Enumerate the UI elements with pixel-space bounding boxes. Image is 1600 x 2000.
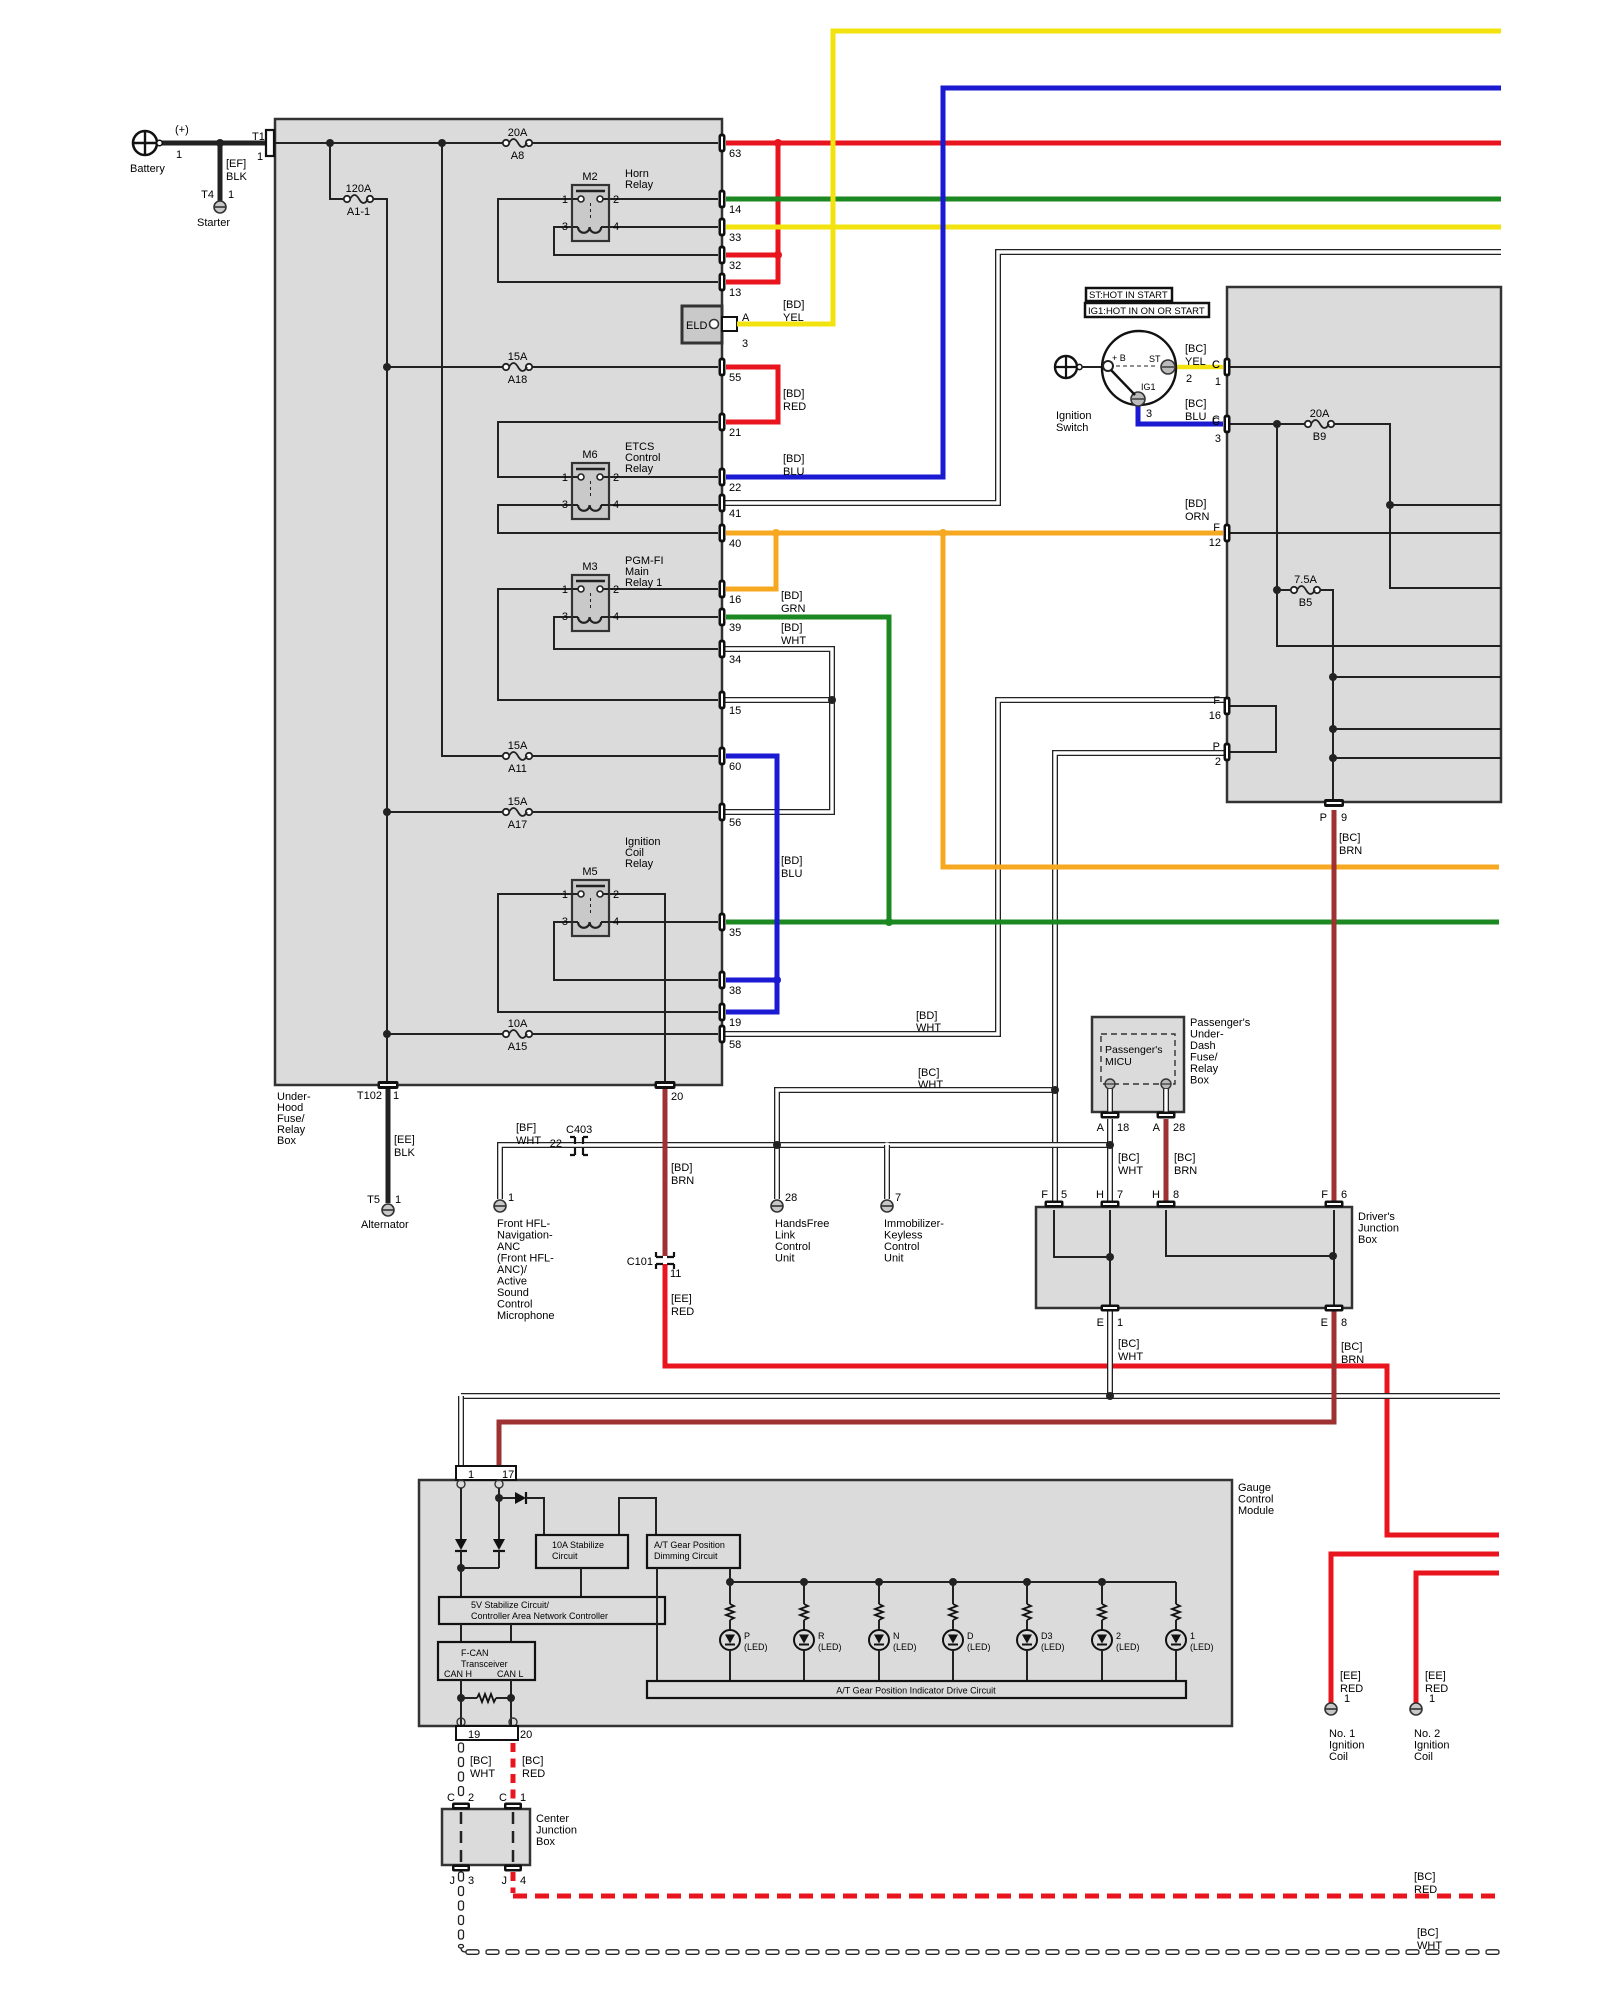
svg-text:1: 1 [393, 1090, 399, 1102]
svg-text:Driver's: Driver's [1358, 1211, 1395, 1223]
wire pin 21 to relay M6 pin1 [498, 422, 718, 477]
svg-text:16: 16 [1209, 710, 1221, 722]
svg-text:Junction: Junction [1358, 1223, 1399, 1235]
connector A18 [1097, 1112, 1130, 1135]
wire red pin 32 stub [726, 253, 780, 258]
label ignition coil relay name [625, 836, 660, 870]
wire brown A28 to H8 [1164, 1119, 1169, 1202]
svg-text:Dash: Dash [1190, 1040, 1216, 1052]
label ETCS relay name [625, 441, 660, 475]
label BC BRN at H8 [1174, 1152, 1197, 1177]
svg-text:7: 7 [895, 1192, 901, 1204]
label BD GRN [781, 590, 806, 615]
svg-text:Control: Control [1238, 1494, 1273, 1506]
junction dot pin17 [495, 1494, 503, 1502]
svg-text:Unit: Unit [884, 1253, 904, 1265]
svg-text:P: P [1213, 741, 1220, 753]
svg-text:20A: 20A [508, 127, 528, 139]
label BC RED bottom [1414, 1871, 1437, 1896]
svg-text:M6: M6 [582, 449, 597, 461]
svg-text:3: 3 [742, 338, 748, 350]
pin 33 under-hood box [719, 218, 742, 245]
wire U to dimming circuit [619, 1498, 656, 1535]
wire relay M2 pin4 to pin 33 [609, 226, 718, 228]
svg-text:ST:HOT IN START: ST:HOT IN START [1089, 290, 1168, 301]
svg-text:T5: T5 [367, 1194, 380, 1206]
label center junction box [536, 1813, 577, 1848]
svg-text:3: 3 [562, 499, 568, 511]
label gauge control module [1238, 1482, 1274, 1517]
white wire to gauge module pin 1 [458, 1396, 464, 1467]
wire blue pin 60 branch [726, 756, 777, 1012]
fuse A8 20A [503, 127, 532, 162]
svg-text:D3: D3 [1041, 1631, 1053, 1641]
svg-text:Under-: Under- [1190, 1029, 1224, 1041]
svg-text:WHT: WHT [781, 635, 806, 647]
svg-text:32: 32 [729, 260, 741, 272]
svg-text:IG1:HOT IN ON OR START: IG1:HOT IN ON OR START [1088, 306, 1205, 317]
wire fuse A1-1 output down bus [373, 199, 387, 1085]
wire fuse A17 to pin 56 [532, 811, 718, 813]
wire green pin 39 branch [726, 617, 889, 922]
wire relay M3 pin3 to pin 34 [554, 617, 718, 649]
pin F16 under-dash box [1209, 695, 1231, 722]
starter terminal [214, 201, 226, 213]
wire diodes join [460, 1551, 462, 1597]
label BC WHT bottom [1417, 1927, 1442, 1952]
svg-text:20: 20 [520, 1729, 532, 1741]
label BD WHT pin34 [781, 622, 806, 647]
center junction box [442, 1809, 530, 1865]
svg-text:120A: 120A [346, 183, 372, 195]
label BC WHT pin19 [470, 1755, 495, 1780]
svg-text:34: 34 [729, 654, 741, 666]
connector H7 [1096, 1189, 1123, 1208]
svg-text:M5: M5 [582, 866, 597, 878]
svg-text:3: 3 [562, 916, 568, 928]
svg-text:F: F [1321, 1189, 1328, 1201]
svg-text:28: 28 [1173, 1122, 1185, 1134]
wire F12 internal run [1230, 532, 1501, 534]
wire brown E8 overlay [499, 1311, 1334, 1467]
box 10A stabilize circuit [536, 1535, 628, 1568]
svg-text:Switch: Switch [1056, 422, 1088, 434]
alternator terminal [382, 1204, 394, 1216]
svg-text:15: 15 [729, 705, 741, 717]
svg-text:B9: B9 [1313, 431, 1326, 443]
svg-text:4: 4 [613, 916, 619, 928]
pin 21 under-hood box [719, 413, 742, 440]
wire 10A box to 5V box [580, 1568, 582, 1597]
svg-text:RED: RED [1425, 1683, 1448, 1695]
svg-text:2: 2 [468, 1792, 474, 1804]
svg-text:R: R [818, 1631, 825, 1641]
connector 20 box1 [655, 1081, 684, 1103]
svg-text:17: 17 [502, 1469, 514, 1481]
svg-text:YEL: YEL [783, 312, 804, 324]
label BC RED pin20 [522, 1755, 545, 1780]
label BD RED [783, 388, 806, 413]
pin P2 under-dash box [1213, 741, 1231, 768]
connector T1 [252, 130, 274, 163]
svg-text:A1-1: A1-1 [347, 206, 370, 218]
wire main bus T1 to fuse A8 [275, 142, 503, 144]
wire red to no.1 ignition coil [1331, 1554, 1499, 1703]
svg-text:[BC]: [BC] [470, 1755, 491, 1767]
svg-text:[BC]: [BC] [1341, 1341, 1362, 1353]
junction dots red [774, 139, 782, 147]
relay M3 PGM-FI main relay 1 [562, 561, 619, 631]
svg-text:BLU: BLU [783, 466, 804, 478]
svg-text:Control: Control [497, 1299, 532, 1311]
svg-text:[BD]: [BD] [916, 1010, 937, 1022]
box AT gear position dimming circuit [647, 1535, 740, 1568]
junction dot white BC [1051, 1086, 1059, 1094]
wire blue ignition switch IG1 to C3 [1138, 403, 1223, 424]
svg-text:A17: A17 [508, 819, 528, 831]
svg-text:(Front HFL-: (Front HFL- [497, 1253, 554, 1265]
svg-text:38: 38 [729, 985, 741, 997]
svg-text:F-CAN: F-CAN [461, 1648, 489, 1658]
connector C403 [550, 1124, 593, 1155]
svg-text:P: P [1320, 812, 1327, 824]
svg-text:1: 1 [520, 1792, 526, 1804]
label BC WHT at H7 [1118, 1152, 1143, 1177]
svg-text:12: 12 [1209, 537, 1221, 549]
svg-text:ANC)/: ANC)/ [497, 1264, 528, 1276]
svg-text:[BC]: [BC] [1174, 1152, 1195, 1164]
note ST hot in start [1086, 288, 1172, 301]
svg-text:Link: Link [775, 1230, 796, 1242]
svg-text:Junction: Junction [536, 1825, 577, 1837]
svg-text:Microphone: Microphone [497, 1310, 554, 1322]
svg-text:10A: 10A [508, 1018, 528, 1030]
svg-text:Navigation-: Navigation- [497, 1230, 553, 1242]
svg-text:Passenger's: Passenger's [1190, 1017, 1251, 1029]
svg-text:(LED): (LED) [893, 1642, 917, 1652]
wire orange branch to pin 16 [726, 533, 776, 589]
diode D2 down [455, 1539, 467, 1551]
svg-text:Module: Module [1238, 1505, 1274, 1517]
svg-text:Ignition: Ignition [1414, 1740, 1449, 1752]
LED column D [943, 1578, 991, 1681]
svg-text:14: 14 [729, 204, 741, 216]
MICU pin circles [1105, 1079, 1171, 1089]
svg-text:F: F [1213, 695, 1220, 707]
svg-text:WHT: WHT [916, 1022, 941, 1034]
label BD BRN at C101 [671, 1162, 694, 1187]
junction dot green [885, 918, 893, 926]
wire brown connector 20 to C101 [663, 1089, 668, 1256]
wire F6 to E8 internal [1333, 1210, 1335, 1305]
svg-text:(+): (+) [175, 124, 189, 136]
svg-text:WHT: WHT [1417, 1940, 1442, 1952]
svg-text:39: 39 [729, 622, 741, 634]
wire relay M6 pin2 to pin 22 [609, 476, 718, 478]
svg-text:8: 8 [1341, 1317, 1347, 1329]
pin 13 under-hood box [719, 273, 742, 300]
passenger MICU dashed box [1101, 1034, 1175, 1084]
box F-CAN transceiver [438, 1642, 535, 1680]
svg-text:2: 2 [1116, 1631, 1121, 1641]
label no.1 coil [1329, 1670, 1364, 1763]
handsfree terminal [771, 1200, 783, 1212]
svg-text:Control: Control [775, 1241, 810, 1253]
label BC WHT 1090 wire [918, 1067, 943, 1091]
svg-text:Dimming Circuit: Dimming Circuit [654, 1551, 718, 1561]
battery symbol [133, 131, 162, 155]
wire internal run 758 [1333, 757, 1501, 759]
wire red pin 13 stub [726, 280, 780, 285]
ignition switch [1102, 331, 1176, 406]
svg-text:Alternator: Alternator [361, 1219, 409, 1231]
wire fuse A15 row [387, 1033, 503, 1035]
svg-text:CAN L: CAN L [497, 1669, 524, 1679]
svg-text:1: 1 [395, 1194, 401, 1206]
relay M2 horn relay [562, 171, 619, 241]
wire fuse A17 row [387, 811, 503, 813]
svg-text:[BD]: [BD] [781, 855, 802, 867]
label T5 [367, 1194, 401, 1206]
svg-text:(LED): (LED) [744, 1642, 768, 1652]
wire fuse B9 output [1334, 424, 1501, 588]
svg-text:Transceiver: Transceiver [461, 1659, 508, 1669]
wire rail to last column [1175, 1582, 1177, 1604]
label drivers junction box [1358, 1211, 1399, 1246]
wire orange vertical to lower run [943, 533, 1499, 867]
svg-text:[BD]: [BD] [783, 453, 804, 465]
svg-text:5: 5 [1061, 1189, 1067, 1201]
wire branch to fuse A11 [442, 143, 503, 756]
svg-text:[BC]: [BC] [1118, 1338, 1139, 1350]
svg-text:3: 3 [1146, 408, 1152, 420]
gauge module top connector [456, 1466, 516, 1481]
note IG1 hot in on or start [1085, 303, 1209, 317]
pin 32 under-hood box [719, 246, 742, 273]
svg-text:1: 1 [468, 1469, 474, 1481]
svg-text:[EF]: [EF] [226, 158, 246, 170]
pin C3 under-dash box [1212, 415, 1230, 446]
fuse A17 15A [503, 796, 532, 831]
svg-text:ELD: ELD [686, 320, 707, 332]
svg-text:11: 11 [670, 1268, 681, 1280]
svg-text:T4: T4 [201, 189, 214, 201]
svg-text:7.5A: 7.5A [1294, 574, 1317, 586]
white wire P2 to F5 [1055, 753, 1230, 1202]
connector C101 [627, 1252, 682, 1280]
connector H8 [1152, 1189, 1179, 1208]
dashed black C2 internal [460, 1812, 463, 1862]
no.1 ignition coil terminal [1325, 1703, 1337, 1715]
svg-text:A11: A11 [508, 763, 527, 775]
wire yellow pin 33 [726, 225, 1501, 230]
fuse A1-1 120A [344, 183, 373, 218]
svg-text:1: 1 [1215, 376, 1221, 388]
fuse A11 15A [503, 740, 532, 775]
svg-text:RED: RED [1340, 1683, 1363, 1695]
gauge module pin circles top [457, 1480, 503, 1488]
wire MICU pin to A18 [1107, 1089, 1113, 1113]
svg-text:Controller Area Network Contro: Controller Area Network Controller [471, 1611, 608, 1621]
svg-text:[BD]: [BD] [781, 622, 802, 634]
svg-text:WHT: WHT [918, 1079, 943, 1091]
svg-text:1: 1 [1117, 1317, 1123, 1329]
ELD unit [682, 306, 750, 350]
svg-text:2: 2 [1186, 373, 1192, 385]
svg-text:2: 2 [613, 194, 619, 206]
white wire E1 down [1107, 1311, 1113, 1396]
svg-text:Unit: Unit [775, 1253, 795, 1265]
label immobilizer keyless control unit [884, 1218, 944, 1265]
pin 55 under-hood box [719, 358, 742, 385]
dashed black C1 internal [512, 1812, 515, 1862]
svg-text:WHT: WHT [516, 1135, 541, 1147]
svg-text:63: 63 [729, 148, 741, 160]
relay M6 ETCS control relay [562, 449, 619, 519]
wire CAN H down [460, 1680, 462, 1726]
svg-text:A: A [1097, 1122, 1105, 1134]
wire gauge pin17 internal [498, 1488, 500, 1539]
svg-text:3: 3 [1215, 433, 1221, 445]
label EE RED at C101 [671, 1293, 694, 1318]
wire blue pin 22 to top [726, 88, 1501, 477]
connector C2 CJB [447, 1792, 474, 1810]
svg-text:[BF]: [BF] [516, 1122, 536, 1134]
label handsfree link control unit [775, 1218, 829, 1265]
svg-text:[EE]: [EE] [394, 1134, 415, 1146]
fuse B5 7.5A [1291, 574, 1320, 609]
svg-text:35: 35 [729, 927, 741, 939]
junction dots orange [772, 529, 780, 537]
svg-text:[EE]: [EE] [1425, 1670, 1446, 1682]
wire relay M2 pin1 to pin 13 [498, 199, 718, 282]
label BD ORN [1185, 498, 1210, 523]
svg-text:M2: M2 [582, 171, 597, 183]
svg-text:F: F [1213, 522, 1220, 534]
wire fuse B5 input stub [1277, 589, 1292, 591]
svg-text:BRN: BRN [1174, 1165, 1197, 1177]
LED rail [730, 1581, 1176, 1583]
label BC BRN at E8 [1341, 1341, 1364, 1366]
svg-text:E: E [1097, 1317, 1104, 1329]
junction dot A15 row [383, 1030, 391, 1038]
label BC BLU [1185, 398, 1220, 426]
junction dot C3 branch [1273, 420, 1281, 428]
svg-text:8: 8 [1173, 1189, 1179, 1201]
svg-text:[EE]: [EE] [1340, 1670, 1361, 1682]
wire H8 to F6 internal [1166, 1210, 1333, 1256]
fuse A18 15A [503, 351, 532, 386]
svg-text:E: E [1321, 1317, 1328, 1329]
pin 56 under-hood box [719, 803, 742, 830]
pin 22 under-hood box [719, 468, 742, 495]
svg-text:N: N [893, 1631, 900, 1641]
white wire pin 41 to top right [722, 252, 1501, 503]
diode D3 down [493, 1539, 505, 1551]
pin 39 under-hood box [719, 608, 742, 635]
svg-text:No. 2: No. 2 [1414, 1728, 1440, 1740]
label ignition switch [1056, 410, 1091, 434]
svg-text:C: C [447, 1792, 455, 1804]
svg-text:2: 2 [613, 584, 619, 596]
svg-text:Box: Box [536, 1836, 555, 1848]
connector J3 CJB [450, 1865, 475, 1888]
svg-text:22: 22 [729, 482, 741, 494]
svg-text:Relay: Relay [625, 179, 654, 191]
dashed red wire pin20 to C1 [511, 1743, 516, 1802]
label no.2 coil [1414, 1670, 1449, 1763]
svg-text:1: 1 [562, 889, 568, 901]
under-dash fuse/relay box (right) [1227, 287, 1501, 802]
svg-text:40: 40 [729, 538, 741, 550]
svg-text:15A: 15A [508, 796, 528, 808]
connector J4 CJB [502, 1865, 527, 1888]
wire green pin 35 run [726, 920, 1499, 925]
svg-text:A18: A18 [508, 374, 528, 386]
svg-text:19: 19 [729, 1017, 741, 1029]
svg-text:28: 28 [785, 1192, 797, 1204]
ignition switch battery terminal symbol [1055, 356, 1082, 378]
junction dot B5 input [1273, 586, 1281, 594]
fuse A15 10A [503, 1018, 532, 1053]
LED column R [794, 1578, 842, 1681]
junction dots 1333 vertical [1329, 673, 1337, 681]
label passengers under-dash fuse relay box [1190, 1017, 1251, 1087]
svg-text:RED: RED [522, 1768, 545, 1780]
svg-text:20A: 20A [1310, 408, 1330, 420]
LED column 1 [1166, 1582, 1214, 1681]
svg-text:20: 20 [671, 1091, 683, 1103]
label T4 [201, 189, 234, 201]
label horn relay name [625, 168, 654, 191]
svg-text:16: 16 [729, 594, 741, 606]
svg-text:F: F [1041, 1189, 1048, 1201]
svg-text:Ignition: Ignition [1056, 410, 1091, 422]
svg-text:GRN: GRN [781, 603, 806, 615]
svg-text:BLK: BLK [394, 1147, 415, 1159]
white wire A18 to H7 [1107, 1119, 1113, 1202]
pin 38 under-hood box [719, 971, 742, 998]
LED column P [720, 1578, 768, 1681]
svg-text:BRN: BRN [671, 1175, 694, 1187]
no.2 ignition coil terminal [1410, 1703, 1422, 1715]
svg-text:CAN H: CAN H [444, 1669, 472, 1679]
white wire BC WHT branch [777, 1090, 1055, 1145]
svg-text:3: 3 [468, 1875, 474, 1887]
svg-text:[BC]: [BC] [918, 1067, 939, 1079]
svg-text:J: J [502, 1875, 508, 1887]
svg-text:Box: Box [277, 1135, 296, 1147]
svg-text:13: 13 [729, 287, 741, 299]
svg-text:2: 2 [613, 889, 619, 901]
svg-text:56: 56 [729, 817, 741, 829]
pin 60 under-hood box [719, 747, 742, 774]
svg-text:Passenger's: Passenger's [1105, 1044, 1162, 1056]
junction dot DJB left [1106, 1253, 1114, 1261]
connector E8 [1321, 1305, 1347, 1330]
svg-text:C403: C403 [566, 1124, 592, 1136]
box 5V stabilize CAN controller [439, 1597, 665, 1624]
wire battery positive to T1 [157, 141, 268, 146]
label BD BLU pin22 [783, 453, 804, 478]
wire relay M5 pin2 to connector 20 [609, 894, 665, 1085]
LED column N [869, 1578, 917, 1681]
svg-text:Relay: Relay [1190, 1063, 1219, 1075]
svg-text:D: D [967, 1631, 974, 1641]
svg-text:7: 7 [1117, 1189, 1123, 1201]
svg-text:(LED): (LED) [1116, 1642, 1140, 1652]
wire 5V to FCAN left [460, 1624, 462, 1642]
